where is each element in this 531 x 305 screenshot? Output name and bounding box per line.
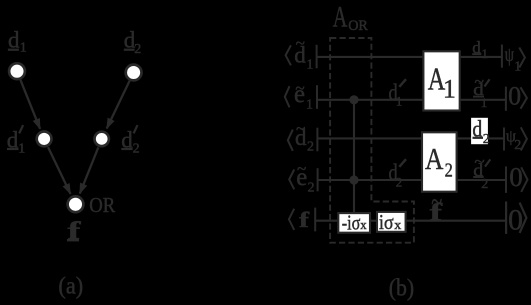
svg-text:1: 1 — [443, 74, 456, 103]
svg-text:2: 2 — [308, 180, 315, 195]
svg-text:1: 1 — [481, 95, 488, 110]
svg-text:~: ~ — [295, 78, 304, 97]
svg-text:2: 2 — [134, 42, 141, 57]
svg-text:x: x — [394, 217, 402, 232]
svg-text:OR: OR — [89, 193, 115, 217]
svg-text:ψ: ψ — [505, 45, 514, 66]
svg-text:-iσ: -iσ — [342, 211, 361, 235]
svg-text:1: 1 — [18, 142, 25, 157]
svg-text:(b): (b) — [389, 275, 414, 301]
svg-text:2: 2 — [396, 174, 403, 189]
svg-text:2: 2 — [445, 160, 453, 182]
svg-text:1: 1 — [396, 93, 403, 108]
svg-text:1: 1 — [306, 57, 313, 72]
svg-text:~: ~ — [474, 154, 484, 170]
svg-text:x: x — [360, 217, 367, 232]
svg-text:iσ: iσ — [379, 210, 394, 234]
svg-text:(a): (a) — [58, 274, 83, 300]
svg-text:2: 2 — [481, 177, 488, 192]
svg-text:2: 2 — [483, 132, 490, 147]
svg-text:2: 2 — [307, 140, 314, 155]
svg-text:OR: OR — [348, 18, 368, 34]
svg-text:~: ~ — [296, 119, 305, 138]
svg-text:0: 0 — [509, 162, 523, 192]
svg-text:~: ~ — [296, 34, 305, 53]
svg-text:1: 1 — [482, 46, 489, 61]
svg-text:A: A — [425, 142, 443, 176]
svg-text:1: 1 — [20, 41, 27, 56]
svg-text:~: ~ — [297, 159, 306, 178]
svg-text:0: 0 — [508, 82, 521, 111]
svg-text:~: ~ — [431, 186, 442, 218]
svg-text:~: ~ — [475, 74, 485, 90]
svg-text:2: 2 — [514, 138, 521, 153]
svg-text:A: A — [333, 2, 348, 34]
svg-text:1: 1 — [306, 98, 313, 113]
svg-text:2: 2 — [133, 142, 140, 157]
svg-text:f: f — [299, 207, 310, 232]
